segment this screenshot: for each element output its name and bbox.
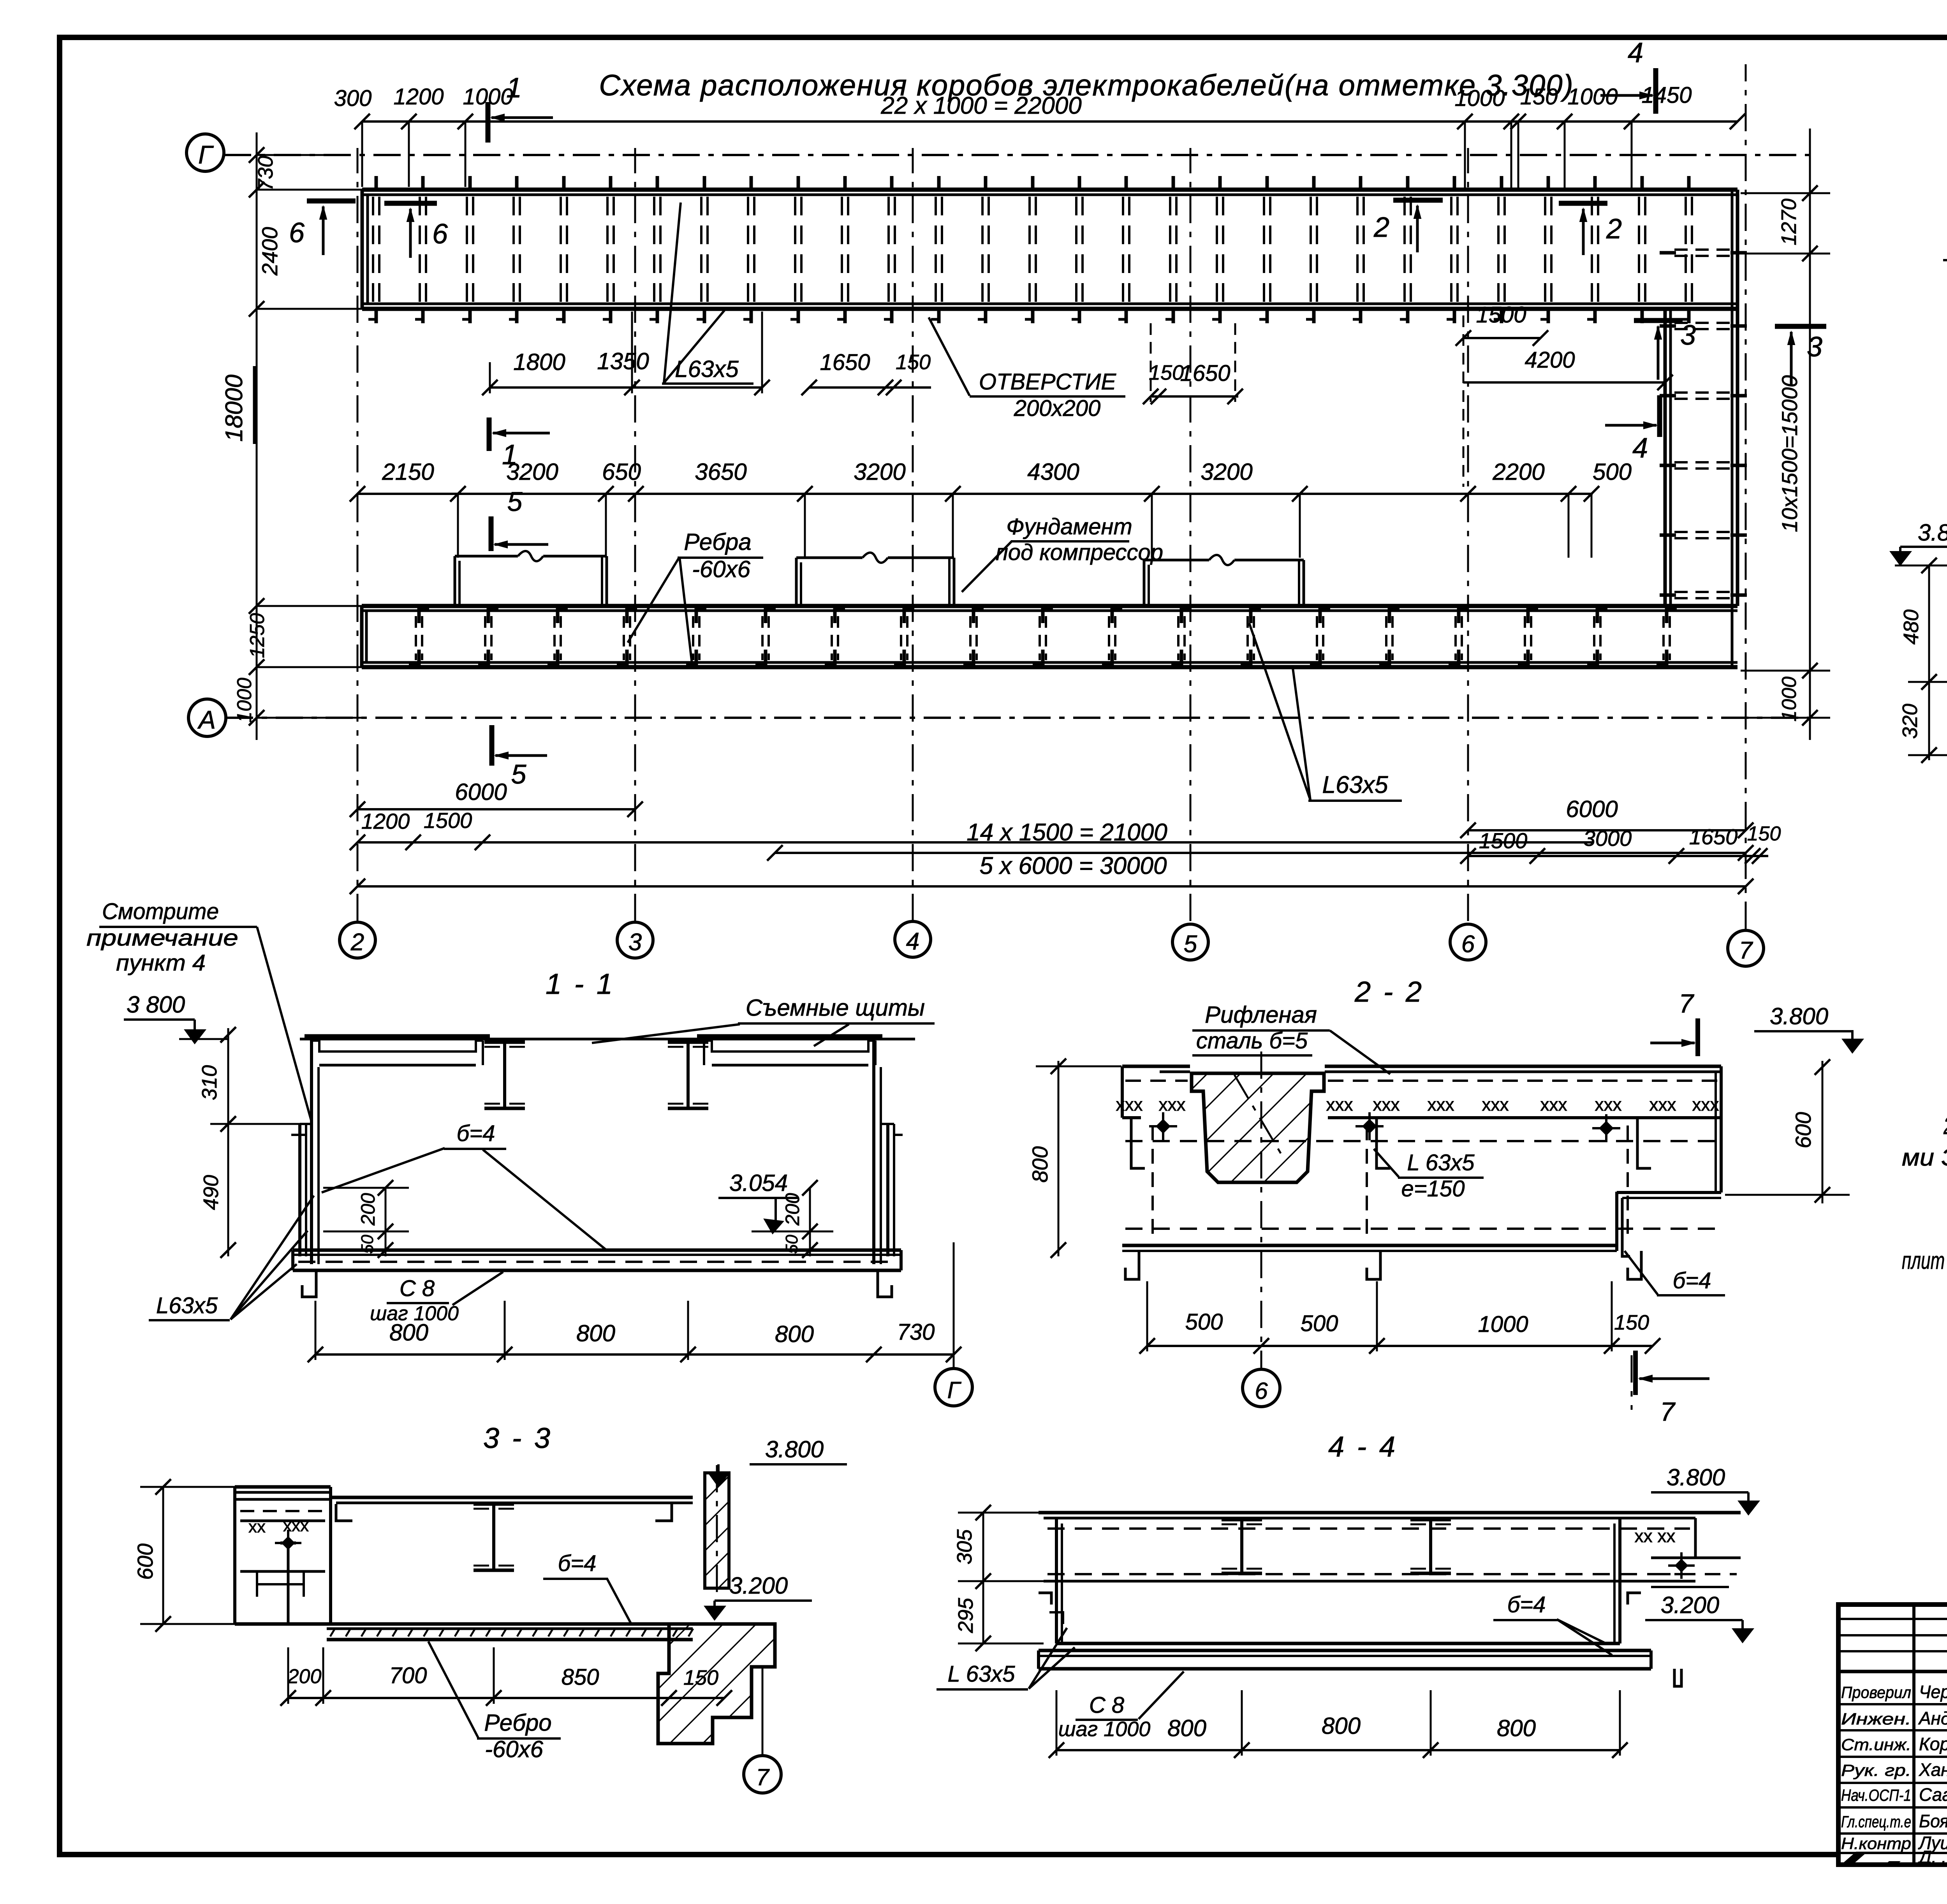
svg-text:6: 6 (1461, 931, 1475, 958)
upper duct band left cap (361, 190, 364, 309)
dim chain above foundations (357, 493, 1593, 495)
svg-text:2200: 2200 (1492, 459, 1544, 485)
svg-text:305: 305 (953, 1529, 976, 1564)
svg-text:50: 50 (358, 1235, 377, 1254)
svg-text:xxx: xxx (1373, 1094, 1400, 1115)
svg-text:примечание: примечание (86, 925, 238, 951)
svg-text:4 - 4: 4 - 4 (1328, 1430, 1398, 1463)
dim 1800 1350 below band (490, 386, 762, 389)
section 6-6 dims 480 320 800 (1928, 565, 1930, 760)
svg-text:б=4: б=4 (1507, 1592, 1546, 1617)
dim 1200 1500 (357, 841, 1593, 844)
svg-text:пункт 4: пункт 4 (116, 950, 206, 976)
section 4-4 top plate (1039, 1511, 1741, 1515)
section 3-3 bottom plate (235, 1622, 697, 1626)
title block outer (1838, 1605, 1947, 1865)
section 2-2 top plate (1122, 1065, 1190, 1068)
svg-text:3.800: 3.800 (1918, 520, 1947, 546)
section mark 5 upper (489, 516, 494, 551)
svg-text:3650: 3650 (695, 459, 746, 485)
svg-text:150: 150 (1747, 823, 1781, 845)
svg-text:Г.: Г. (1841, 1848, 1911, 1867)
svg-text:xxx: xxx (283, 1516, 309, 1535)
svg-text:800: 800 (1028, 1146, 1052, 1182)
svg-text:730: 730 (897, 1319, 935, 1345)
axis circle 7 (3-3) (762, 1667, 764, 1756)
section 4-4 mid dashed (1047, 1573, 1690, 1575)
svg-text:2400: 2400 (257, 227, 282, 276)
svg-text:4: 4 (906, 928, 919, 955)
svg-text:5: 5 (507, 486, 523, 517)
svg-text:1500: 1500 (424, 808, 472, 833)
foundation plate B (795, 558, 798, 606)
svg-text:1270: 1270 (1777, 199, 1801, 245)
svg-text:200: 200 (287, 1665, 322, 1688)
axis dash-dot right (2-2) (1631, 1355, 1633, 1410)
section 2-2 dim 800 left (1058, 1061, 1060, 1256)
svg-text:200: 200 (782, 1193, 803, 1226)
section 1-1 bottom plate (293, 1249, 901, 1252)
svg-text:600: 600 (1791, 1112, 1815, 1148)
svg-text:2: 2 (1606, 213, 1622, 245)
svg-text:310: 310 (198, 1065, 221, 1100)
svg-text:Ребра: Ребра (684, 529, 751, 555)
svg-text:2: 2 (350, 929, 364, 956)
svg-text:14 x 1500 = 21000: 14 x 1500 = 21000 (966, 819, 1167, 846)
section 4-4 bottom dims 800 800 800 (1056, 1749, 1620, 1751)
svg-text:1200: 1200 (361, 809, 410, 833)
svg-text:Ст.инж.: Ст.инж. (1841, 1735, 1911, 1754)
section marks 6-6 (307, 199, 356, 204)
svg-text:1000: 1000 (1454, 86, 1505, 111)
plus mark 4-4 (1668, 1564, 1695, 1567)
svg-text:сталь б=5: сталь б=5 (1196, 1028, 1308, 1053)
section 1-1 right wall (872, 1039, 875, 1264)
svg-text:3: 3 (1680, 320, 1696, 351)
svg-text:xxx: xxx (1482, 1094, 1509, 1115)
dim 14x1500=21000 (775, 852, 1746, 854)
svg-text:1000: 1000 (233, 678, 256, 723)
svg-text:800: 800 (389, 1319, 428, 1346)
svg-text:1000: 1000 (1778, 676, 1801, 722)
svg-text:150: 150 (683, 1666, 718, 1689)
dim 5x6000=30000 (357, 885, 1746, 888)
svg-text:500: 500 (1185, 1309, 1223, 1335)
svg-text:650: 650 (602, 459, 641, 485)
svg-text:xxx: xxx (1326, 1094, 1353, 1115)
svg-text:Фундамент: Фундамент (1006, 514, 1132, 539)
svg-text:1: 1 (506, 72, 522, 104)
svg-text:1650: 1650 (1180, 361, 1230, 386)
axis Г circle (187, 134, 224, 171)
dim 1500 inner (1463, 337, 1540, 339)
svg-text:xx xx: xx xx (1635, 1526, 1676, 1546)
svg-text:Ребро: Ребро (484, 1710, 551, 1736)
svg-text:1000: 1000 (1478, 1312, 1528, 1337)
foundation plate A (454, 556, 456, 606)
svg-text:295: 295 (954, 1598, 977, 1633)
svg-text:3200: 3200 (506, 459, 558, 485)
svg-text:600: 600 (133, 1543, 157, 1580)
svg-text:xxx: xxx (1428, 1094, 1454, 1115)
svg-text:150: 150 (1614, 1311, 1649, 1334)
svg-text:800: 800 (1167, 1715, 1206, 1741)
column axes vertical dash-dot lines (357, 148, 359, 921)
svg-text:L63x5: L63x5 (156, 1293, 218, 1318)
left dim chain verticals (256, 132, 258, 740)
section 4-4 bottom plates (1056, 1642, 1620, 1645)
svg-text:4: 4 (1632, 433, 1648, 464)
upper duct band chords (362, 188, 1738, 192)
title block name rows (1838, 1703, 1947, 1705)
section 2-2 bottom dims 500 500 1000 150 (1147, 1345, 1653, 1347)
svg-text:ОТВЕРСТИЕ: ОТВЕРСТИЕ (979, 369, 1116, 395)
svg-text:Саакьянц: Саакьянц (1919, 1784, 1947, 1805)
svg-text:3200: 3200 (1201, 459, 1252, 485)
svg-text:L 63x5: L 63x5 (1407, 1150, 1475, 1175)
section 3-3 right wall hatched (705, 1473, 729, 1588)
svg-text:плит перекрытия.: плит перекрытия. (1902, 1247, 1947, 1274)
svg-text:xxx: xxx (1116, 1094, 1143, 1115)
svg-text:С 8: С 8 (1089, 1693, 1124, 1718)
svg-text:Ханин: Ханин (1919, 1760, 1947, 1780)
section 2-2 right wall (1615, 1192, 1618, 1251)
svg-text:2150: 2150 (382, 459, 434, 485)
right dim chain 1270 / 10x1500=15000 / 1000 (1809, 129, 1811, 740)
svg-text:200: 200 (357, 1193, 379, 1226)
section 4-4 dims 305 295 (982, 1513, 984, 1643)
svg-text:xxx: xxx (1595, 1094, 1622, 1115)
lower band ribs (415, 616, 417, 660)
section 1-1 top line (300, 1038, 915, 1041)
svg-text:3.800: 3.800 (765, 1436, 824, 1462)
dim 150 1650 (1151, 395, 1238, 398)
svg-text:3200: 3200 (854, 459, 905, 485)
svg-text:-60x6: -60x6 (692, 556, 751, 582)
dims 200 50 left (1-1) (385, 1188, 387, 1256)
section mark 3 outer right (1775, 324, 1826, 329)
axis А circle (188, 699, 226, 736)
svg-text:4300: 4300 (1027, 459, 1079, 485)
dim 1500 3000 1650 150 right (1468, 855, 1768, 857)
section 1-1 I-beam left (484, 1041, 525, 1044)
svg-text:Д. ....: Д. .... (1917, 1847, 1947, 1867)
svg-text:500: 500 (1593, 459, 1632, 485)
section 4-4 I-beams (1222, 1518, 1262, 1522)
upper band ribs (dashed stiffeners) (372, 197, 374, 303)
svg-text:7: 7 (1739, 937, 1753, 964)
svg-text:6000: 6000 (1566, 796, 1618, 822)
svg-text:1200: 1200 (393, 84, 444, 109)
svg-text:200x200: 200x200 (1014, 396, 1101, 421)
axis circles 2-7 (340, 922, 375, 958)
dims 200 50 right (1-1) (809, 1188, 811, 1256)
svg-text:3.800: 3.800 (1770, 1003, 1828, 1029)
svg-text:700: 700 (389, 1663, 427, 1688)
section 3-3 foundation hatched (658, 1624, 775, 1744)
svg-text:18000: 18000 (221, 375, 248, 442)
section 3-3 bottom dims 200 700 850 150 (288, 1697, 724, 1699)
svg-text:1 - 1: 1 - 1 (546, 968, 615, 1000)
svg-text:800: 800 (775, 1321, 814, 1347)
section 1-1 right removable tray (697, 1034, 882, 1038)
section 3-3 left duct box (235, 1485, 331, 1489)
right vertical duct walls (1664, 309, 1667, 606)
svg-text:5: 5 (1184, 931, 1197, 958)
svg-text:Коротенко: Коротенко (1919, 1734, 1947, 1754)
svg-text:7: 7 (756, 1764, 770, 1790)
svg-text:под компрессор: под компрессор (996, 540, 1163, 565)
svg-text:500: 500 (1301, 1311, 1338, 1336)
axis 6 dash-dot (2-2) (1260, 1052, 1262, 1368)
dimension line 22x1000=22000 (362, 120, 1738, 123)
dim 4200 inner (1463, 381, 1665, 384)
svg-text:Инжен.: Инжен. (1841, 1710, 1911, 1728)
lower duct band caps (360, 606, 364, 667)
svg-text:10x1500=15000: 10x1500=15000 (1777, 375, 1802, 532)
svg-text:-60x6: -60x6 (485, 1736, 544, 1762)
svg-text:Рук. гр.: Рук. гр. (1841, 1761, 1911, 1779)
svg-text:Съемные щиты: Съемные щиты (746, 995, 925, 1021)
svg-text:Бояриченко: Бояриченко (1919, 1811, 1947, 1831)
svg-text:7: 7 (1660, 1397, 1676, 1427)
svg-text:6: 6 (289, 217, 305, 248)
svg-text:А: А (197, 705, 216, 734)
svg-text:800: 800 (1322, 1713, 1361, 1739)
svg-text:1250: 1250 (246, 613, 269, 658)
svg-text:50: 50 (782, 1235, 801, 1254)
svg-text:1500: 1500 (1476, 302, 1526, 328)
title block columns left (1912, 1605, 1915, 1865)
svg-text:2 - 2: 2 - 2 (1354, 976, 1424, 1008)
section marks 2-2 (1393, 198, 1443, 203)
section 4-4 left wall (1055, 1518, 1058, 1643)
lower duct band chords (362, 604, 1738, 608)
section 2-2 left channel posts (1131, 1118, 1145, 1168)
section 6-6 top dim line (1895, 565, 1947, 567)
svg-text:e=150: e=150 (1401, 1176, 1465, 1201)
dim 6000 right (1468, 829, 1746, 831)
svg-text:Смотрите: Смотрите (102, 899, 219, 924)
svg-text:xxx: xxx (1159, 1094, 1186, 1115)
svg-text:6: 6 (432, 218, 448, 250)
svg-text:Проверил: Проверил (1841, 1683, 1911, 1701)
svg-text:Нач.ОСП-1: Нач.ОСП-1 (1841, 1786, 1911, 1804)
svg-text:22 x 1000 = 22000: 22 x 1000 = 22000 (880, 92, 1081, 119)
svg-text:3: 3 (628, 929, 642, 956)
axis А horizontal dash-dot line (226, 717, 1810, 719)
svg-text:Схема расположения коробов: Схема расположения коробов электрокабеле… (599, 69, 1574, 102)
svg-text:1800: 1800 (513, 349, 565, 375)
svg-text:3.200: 3.200 (1661, 1592, 1719, 1618)
title block top small rows (1838, 1618, 1947, 1620)
svg-text:5 x 6000 = 30000: 5 x 6000 = 30000 (980, 852, 1167, 879)
section 4-4 right small hook (1674, 1669, 1681, 1686)
section 3-3 dim 600 (162, 1487, 164, 1624)
dim 1650 150 (809, 386, 931, 389)
svg-text:Андреева: Андреева (1918, 1708, 1947, 1728)
section 2-2 dim 600 right (1822, 1061, 1824, 1203)
right vertical duct rungs (1674, 248, 1732, 251)
svg-text:б=4: б=4 (457, 1121, 495, 1146)
section mark 5 lower (489, 725, 495, 766)
svg-text:ми Э42 по ГОСТ 9467-75.: ми Э42 по ГОСТ 9467-75. (1902, 1144, 1947, 1171)
svg-text:7: 7 (1679, 989, 1694, 1018)
section mark 7 lower (2-2) (1633, 1351, 1638, 1395)
section 4-4 right wall (1618, 1518, 1621, 1643)
svg-text:б=4: б=4 (1673, 1268, 1711, 1293)
svg-text:3.054: 3.054 (729, 1170, 788, 1196)
section mark 1 bottom (487, 417, 492, 451)
section 2-2 plus diamonds (1149, 1125, 1177, 1127)
section 1-1 I-beam right (668, 1041, 708, 1044)
section 3-3 main box (331, 1496, 693, 1499)
svg-text:L 63x5: L 63x5 (947, 1661, 1015, 1687)
svg-text:4: 4 (1628, 37, 1643, 69)
dim 6000 (axes 2-3) (357, 808, 635, 810)
section mark 4 lower (1657, 395, 1662, 437)
svg-text:3.800: 3.800 (1667, 1464, 1725, 1490)
svg-text:3 800: 3 800 (127, 992, 185, 1018)
svg-text:1500: 1500 (1479, 828, 1528, 853)
section mark 3 inner (1634, 318, 1683, 323)
svg-text:4200: 4200 (1525, 347, 1575, 373)
svg-text:5: 5 (511, 759, 527, 789)
section 1-1 left removable tray (305, 1034, 490, 1038)
svg-text:150: 150 (1520, 84, 1558, 109)
svg-text:Рифленая: Рифленая (1205, 1002, 1317, 1028)
axis Г circle (1-1) (953, 1242, 955, 1368)
section 1-1 bottom angle hooks (302, 1270, 316, 1297)
svg-text:730: 730 (254, 156, 277, 191)
svg-text:800: 800 (576, 1320, 615, 1346)
right top dims 1000 150 1000 1450 (1457, 114, 1473, 129)
svg-text:1350: 1350 (597, 348, 649, 374)
svg-text:Гл.спец.т.е: Гл.спец.т.е (1841, 1812, 1911, 1831)
section 2-2 body (1121, 1066, 1124, 1118)
axis Г horizontal dash-dot line (224, 154, 1810, 156)
svg-text:150: 150 (896, 351, 931, 374)
svg-text:300: 300 (334, 86, 372, 111)
svg-text:3000: 3000 (1583, 826, 1632, 851)
section 1-1 left wall (310, 1039, 313, 1264)
svg-text:3 - 3: 3 - 3 (483, 1422, 553, 1454)
section 1-1 bottom dims 800 800 800 730 (315, 1353, 954, 1356)
svg-text:6: 6 (1255, 1378, 1268, 1404)
svg-text:2. Конструкции сварные. Сварку: 2. Конструкции сварные. Сварку производи… (1943, 1113, 1947, 1140)
svg-text:С 8: С 8 (400, 1276, 435, 1301)
svg-text:б=4: б=4 (558, 1551, 597, 1576)
svg-text:490: 490 (199, 1175, 223, 1210)
svg-text:L63x5: L63x5 (1322, 771, 1388, 798)
upper duct band right cap (1731, 190, 1734, 309)
svg-text:xxx: xxx (1649, 1094, 1676, 1115)
svg-text:Г: Г (947, 1377, 962, 1403)
section 2-2 bottom hooks (1125, 1251, 1139, 1279)
section 2-2 concrete column (1192, 1073, 1324, 1182)
foundation plate C (1143, 560, 1146, 608)
section mark 1 top (486, 102, 491, 143)
plus mark 3-3 (275, 1542, 301, 1544)
svg-text:850: 850 (562, 1664, 599, 1690)
section 1-1 left dims 310 490 (227, 1028, 229, 1256)
svg-text:800: 800 (1497, 1715, 1536, 1741)
svg-text:150: 150 (1149, 361, 1184, 384)
svg-text:Г: Г (198, 140, 214, 169)
svg-text:2: 2 (1373, 212, 1389, 243)
svg-text:шаг 1000: шаг 1000 (1058, 1717, 1151, 1741)
svg-text:1650: 1650 (820, 350, 870, 375)
svg-text:1650: 1650 (1689, 824, 1738, 849)
svg-text:320: 320 (1898, 704, 1922, 739)
svg-text:Чернявская: Чернявская (1919, 1682, 1947, 1702)
axis circle 6 (2-2) (1243, 1369, 1280, 1407)
svg-text:6000: 6000 (455, 779, 507, 805)
svg-text:480: 480 (1899, 609, 1923, 645)
svg-text:3.200: 3.200 (729, 1573, 788, 1599)
svg-text:xxx: xxx (1540, 1094, 1567, 1115)
